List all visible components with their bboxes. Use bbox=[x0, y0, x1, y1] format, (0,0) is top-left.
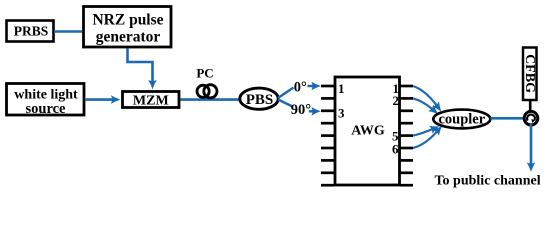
wire white light source to MZM (arrow) bbox=[85, 98, 113, 101]
box CFBG bbox=[522, 48, 537, 101]
circulator bbox=[524, 111, 538, 125]
svg-text:NRZ pulse: NRZ pulse bbox=[92, 12, 163, 29]
coupler ellipse bbox=[433, 110, 490, 129]
svg-text:3: 3 bbox=[338, 106, 345, 121]
wire coupler to circulator bbox=[491, 117, 526, 120]
svg-text:PBS: PBS bbox=[246, 92, 274, 108]
wire PBS upper branch bbox=[278, 88, 294, 99]
svg-text:coupler: coupler bbox=[438, 112, 485, 128]
AWG right output ports (ticks) bbox=[400, 86, 413, 185]
svg-text:6: 6 bbox=[392, 142, 399, 157]
box PRBS bbox=[7, 21, 54, 42]
svg-text:AWG: AWG bbox=[351, 124, 385, 139]
box NRZ pulse generator bbox=[84, 7, 172, 48]
svg-text:PC: PC bbox=[196, 66, 213, 81]
wire CFBG to circulator bbox=[529, 100, 532, 113]
svg-text:1: 1 bbox=[338, 81, 345, 96]
arrow 90 degrees into AWG port 3 bbox=[309, 110, 313, 112]
svg-text:0°: 0° bbox=[294, 79, 307, 95]
wire circulator to public channel (arrow down) bbox=[530, 124, 533, 164]
svg-text:CFBG: CFBG bbox=[522, 54, 537, 93]
svg-text:source: source bbox=[25, 101, 66, 117]
svg-text:MZM: MZM bbox=[133, 94, 169, 109]
wire NRZ generator to MZM (elbow with arrow) bbox=[128, 49, 153, 82]
box white light source bbox=[7, 84, 85, 118]
AWG box bbox=[335, 77, 400, 185]
wire AWG port 5 to coupler bbox=[413, 129, 432, 135]
AWG left input ports (ticks) bbox=[321, 86, 334, 185]
svg-text:generator: generator bbox=[96, 29, 161, 46]
PBS ellipse bbox=[240, 88, 278, 109]
arrow 0 degrees into AWG port 1 bbox=[308, 85, 314, 87]
wire PBS lower branch bbox=[278, 100, 293, 107]
svg-text:90°: 90° bbox=[291, 102, 312, 118]
svg-text:2: 2 bbox=[393, 93, 400, 108]
svg-text:PRBS: PRBS bbox=[14, 24, 49, 39]
wire MZM to PBS bbox=[181, 98, 242, 101]
polarization controller loops bbox=[197, 85, 217, 98]
wire PRBS to NRZ generator bbox=[54, 30, 82, 33]
svg-text:To public channel: To public channel bbox=[435, 174, 541, 189]
wire AWG port 2 to coupler bbox=[413, 98, 432, 109]
wire AWG port 1 to coupler bbox=[413, 86, 437, 105]
wire AWG port 6 to coupler bbox=[413, 132, 437, 148]
box MZM bbox=[123, 92, 180, 109]
